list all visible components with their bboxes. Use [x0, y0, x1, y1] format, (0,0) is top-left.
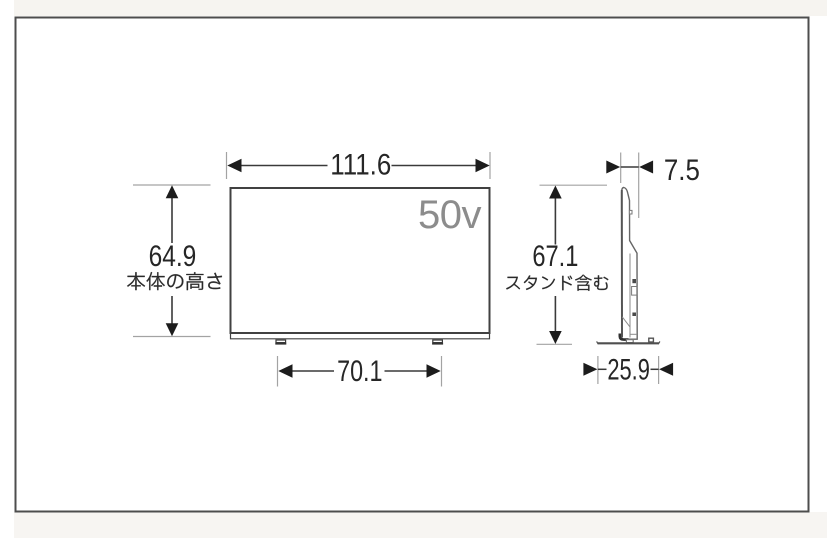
svg-text:67.1: 67.1 — [532, 240, 578, 273]
side view bottom-left dark corner — [620, 334, 629, 340]
caption スタンド含む (vector path) — [506, 275, 608, 291]
side view rear port detail (lower dark) — [632, 313, 636, 317]
stand depth dimension 25.9 : left extension tick — [597, 356, 599, 384]
width dimension 111.6 : left extension tick — [226, 152, 228, 179]
stand span dimension 70.1 : left extension tick — [277, 356, 279, 387]
depth dimension 7.5 : dimension line — [621, 166, 639, 168]
side view inner vertical line — [629, 254, 631, 338]
base plate left end tick — [597, 341, 599, 344]
side view rear port detail (upper dark) — [632, 279, 636, 283]
svg-text:111.6: 111.6 — [330, 149, 391, 182]
background bottom strip — [14, 512, 827, 538]
stand depth dimension 25.9 : right arrowhead (pointing left) — [659, 363, 673, 376]
body height dimension 64.9 : bottom extension line — [133, 336, 211, 338]
side view stand neck — [626, 340, 633, 343]
side view front edge (darker) — [621, 190, 623, 337]
total height dimension 67.1 : top arrowhead — [549, 186, 562, 199]
total height dimension 67.1 : top extension line — [540, 184, 608, 186]
side view bulge inner bottom line — [630, 333, 637, 335]
width dimension 111.6 : right arrowhead — [476, 159, 490, 173]
total height dimension 67.1 : bottom extension line — [537, 343, 573, 345]
width dimension 111.6 : left arrowhead — [227, 159, 241, 173]
total height dimension 67.1 : bottom arrowhead — [549, 331, 562, 344]
width dimension 111.6 : dimension line — [239, 165, 328, 167]
svg-text:70.1: 70.1 — [337, 355, 382, 388]
body height caption 本体の高さ (vector path) — [127, 272, 222, 290]
side view rear outlined box — [632, 287, 637, 296]
side view: depth dimension 7.5 : left extension tick — [620, 153, 622, 184]
body height dimension 64.9 : top extension line — [133, 184, 211, 186]
side view: depth dimension 7.5 : right extension tick — [638, 153, 640, 219]
side view inner diagonal — [622, 317, 630, 327]
left foot — [275, 340, 286, 344]
svg-text:50v: 50v — [418, 193, 481, 237]
side view rear foot — [649, 338, 654, 342]
stand span dimension 70.1 : dimension line — [290, 370, 334, 372]
side view stand base plate — [598, 342, 659, 344]
svg-text:64.9: 64.9 — [149, 240, 197, 273]
stand span dimension 70.1 : right arrowhead — [427, 364, 441, 378]
background top strip — [14, 0, 827, 16]
stand span dimension 70.1 : right extension tick — [441, 356, 443, 387]
width dimension 111.6 : right extension tick — [489, 152, 491, 179]
side view rear bump — [629, 210, 632, 214]
stand depth dimension 25.9 : dimension line — [598, 368, 607, 370]
stand depth dimension 25.9 : right extension tick — [658, 356, 660, 384]
side view TV profile body — [622, 187, 638, 339]
stand depth dimension 25.9 : left arrowhead (pointing right) — [583, 363, 597, 376]
body height dimension 64.9 : top arrowhead — [166, 185, 179, 198]
base plate right end tick — [658, 341, 660, 344]
depth dimension 7.5 : right arrowhead (pointing left) — [639, 161, 653, 174]
stand span dimension 70.1 : left arrowhead — [278, 364, 292, 378]
right foot — [432, 340, 443, 344]
body height dimension 64.9 : dimension line — [171, 197, 173, 243]
svg-text:7.5: 7.5 — [664, 154, 700, 187]
total height dimension 67.1 : dimension line — [554, 198, 556, 245]
depth dimension 7.5 : left arrowhead (pointing right) — [606, 161, 620, 174]
svg-text:25.9: 25.9 — [607, 354, 650, 387]
body height dimension 64.9 : bottom arrowhead — [166, 323, 179, 336]
TV front bottom strip — [231, 333, 490, 339]
TV front panel outline — [231, 188, 490, 333]
